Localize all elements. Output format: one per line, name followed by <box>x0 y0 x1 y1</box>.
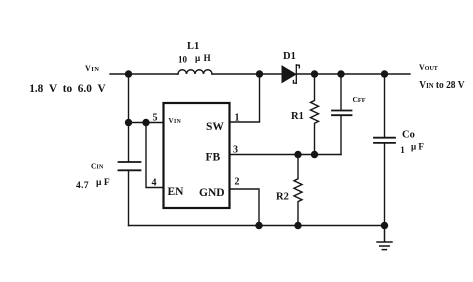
svg-text:µ F: µ F <box>411 141 424 151</box>
svg-text:5: 5 <box>153 113 158 124</box>
diode D1 triangle <box>282 66 296 83</box>
resistor R2 <box>294 155 302 226</box>
node GND pin2 bottom <box>255 222 262 229</box>
svg-text:2: 2 <box>235 177 240 188</box>
wire inductor to diode anode <box>212 73 283 75</box>
inductor L1 <box>178 70 212 74</box>
diode D1 cathode bar (schottky) <box>293 65 299 84</box>
node VIN rail top <box>125 70 132 77</box>
wire diode cathode to VOUT end <box>297 73 411 75</box>
svg-text:3: 3 <box>233 144 238 155</box>
wire VIN pin5 horizontal <box>129 122 164 124</box>
svg-text:VIN: VIN <box>85 64 100 73</box>
svg-text:VIN: VIN <box>169 117 182 125</box>
node CFF top <box>337 70 344 77</box>
svg-text:R2: R2 <box>276 192 289 203</box>
svg-text:CFF: CFF <box>353 95 366 104</box>
node SW top <box>256 70 263 77</box>
resistor R1 <box>311 74 319 155</box>
node EN branch <box>142 119 149 126</box>
capacitor CFF plates <box>332 111 352 116</box>
svg-text:1: 1 <box>400 145 405 155</box>
capacitor Co plates <box>374 138 395 143</box>
node FB-R1 <box>311 151 318 158</box>
svg-text:Co: Co <box>402 130 415 141</box>
svg-text:GND: GND <box>199 187 225 199</box>
node FB-R2 <box>294 151 301 158</box>
node rail-pin5 <box>125 119 132 126</box>
capacitor CIN plates <box>119 162 141 170</box>
wire SW pin1 to top rail <box>230 74 260 122</box>
wire top rail left: VIN to inductor <box>110 73 178 75</box>
svg-text:4: 4 <box>152 178 157 189</box>
wire bottom ground rail <box>129 225 385 227</box>
svg-text:EN: EN <box>168 186 185 198</box>
wire GND pin2 down to bottom rail <box>230 189 259 226</box>
svg-text:µ F: µ F <box>96 178 110 188</box>
node R1 top <box>311 70 318 77</box>
node ground <box>381 222 388 229</box>
wire FB pin3 line to CFF bottom <box>230 154 341 156</box>
svg-text:1.8 V to 6.0 V: 1.8 V to 6.0 V <box>29 83 106 95</box>
svg-text:SW: SW <box>206 121 224 133</box>
svg-text:L1: L1 <box>187 41 199 52</box>
svg-text:FB: FB <box>206 152 221 164</box>
capacitor Co vertical wires <box>384 74 386 226</box>
svg-text:D1: D1 <box>283 51 296 62</box>
node VOUT <box>381 70 388 77</box>
svg-text:10: 10 <box>178 55 188 65</box>
svg-text:R1: R1 <box>291 111 304 122</box>
wire left input rail vertical <box>128 74 130 226</box>
svg-text:µ H: µ H <box>195 53 211 63</box>
node R2 bottom <box>294 222 301 229</box>
svg-text:CIN: CIN <box>91 162 104 171</box>
op-amp U1 (IC box) <box>164 103 230 208</box>
svg-text:VIN to 28 V: VIN to 28 V <box>419 80 465 91</box>
ground symbol <box>377 226 392 250</box>
svg-text:1: 1 <box>235 113 240 124</box>
svg-text:4.7: 4.7 <box>76 181 89 191</box>
wire EN branch vertical and pin4 <box>146 123 163 188</box>
capacitor CFF vertical wires <box>340 74 342 155</box>
